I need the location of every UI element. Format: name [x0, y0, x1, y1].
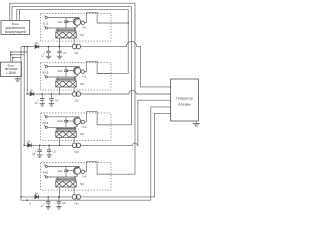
wire: control bus 3	[17, 10, 128, 74]
wire: terminal 1 rail	[48, 66, 80, 68]
control unit box	[1, 21, 30, 35]
svg-text:Cм3: Cм3	[57, 119, 63, 123]
capacitor C1	[48, 47, 50, 52]
terminal X1.2	[45, 27, 47, 29]
transformer Тр3	[56, 131, 76, 137]
diode Д2	[30, 92, 34, 96]
wire: module 4 feed loop to bus	[85, 171, 87, 173]
transistor VT3	[74, 117, 81, 124]
svg-text:Гр4: Гр4	[75, 203, 80, 206]
wire: module 3 power rail	[24, 144, 72, 146]
node: bottom bus junction	[26, 199, 28, 201]
transformer Тр1	[56, 32, 76, 38]
output jack Гн4	[81, 170, 84, 173]
terminal X1.1	[45, 16, 47, 18]
diode Д1	[35, 45, 39, 49]
wire: module 2 feed loop to bus	[85, 71, 87, 73]
power supply box	[1, 62, 22, 77]
wire: module 2 power rail	[27, 93, 72, 95]
svg-text:Х1 В: Х1 В	[42, 22, 48, 26]
svg-text:Тр2: Тр2	[80, 83, 85, 86]
module 1 dashed enclosure	[41, 14, 111, 41]
capacitor C7	[47, 197, 49, 202]
module 4 dashed enclosure	[41, 163, 111, 191]
wire: power tap to X2	[11, 54, 24, 56]
wire: secondary leads	[59, 137, 61, 145]
wire: collector to input rail	[78, 116, 80, 119]
diode Д4	[35, 195, 39, 199]
wire: control bus 1 (top outer)	[10, 3, 135, 174]
wire: collector to input rail	[78, 17, 80, 20]
node: rail junctions on module1 rail	[23, 46, 25, 48]
connector Гр1	[72, 44, 77, 49]
svg-text:Cм2: Cм2	[57, 69, 63, 73]
transistor VT4	[74, 167, 81, 174]
svg-text:Тр1: Тр1	[80, 34, 85, 37]
svg-text:Cм4: Cм4	[57, 169, 63, 173]
svg-text:коммутацией: коммутацией	[5, 30, 26, 34]
wire: secondary leads	[59, 187, 61, 197]
svg-text:Cм1: Cм1	[57, 20, 63, 24]
svg-text:Тр3: Тр3	[80, 133, 85, 136]
svg-text:плазмы: плазмы	[178, 103, 191, 107]
connector Гр2	[72, 92, 77, 97]
connector Гр4	[72, 195, 77, 200]
svg-text:Гн3: Гн3	[82, 126, 86, 129]
capacitor C4	[51, 94, 53, 99]
wire: collector to input rail	[78, 66, 80, 69]
output jack Гн3	[81, 120, 84, 123]
terminal X3.2	[45, 126, 47, 128]
svg-text:Гр1: Гр1	[75, 52, 80, 55]
wire: primary leads	[57, 177, 59, 181]
capacitor Cм4	[65, 167, 67, 171]
svg-text:Х2 В: Х2 В	[42, 71, 48, 75]
svg-text:Гр3: Гр3	[75, 151, 80, 154]
svg-text:1,5Вх8: 1,5Вх8	[6, 71, 16, 75]
wire: module 1 feed loop to bus	[85, 22, 87, 24]
svg-text:Х3 В: Х3 В	[42, 121, 48, 125]
svg-text:Тр4: Тр4	[80, 183, 85, 186]
wire: left rail X3	[26, 47, 28, 94]
wire: primary leads	[57, 28, 59, 32]
wire: secondary leads	[59, 38, 61, 47]
wire: module 4 power rail	[21, 196, 72, 198]
terminal X4.1	[45, 165, 47, 167]
connector Гр3	[72, 143, 77, 148]
wire: left rail X2	[23, 47, 25, 146]
transformer Тр2	[56, 81, 76, 87]
wire: module 1 power rail	[21, 46, 72, 48]
capacitor Cм2	[65, 67, 67, 71]
module 3 dashed enclosure	[41, 113, 111, 140]
wire: terminal 2 lead	[48, 76, 75, 78]
wire: channel 1 output with hop	[81, 41, 171, 87]
output jack Гн1	[81, 21, 84, 24]
wire: channel 2 output with hop	[81, 90, 171, 94]
capacitor C2	[59, 47, 61, 52]
transistor VT2	[74, 67, 81, 74]
wire: primary leads	[57, 127, 59, 131]
wire: left rail X1 to bottom bus and generator return	[21, 47, 171, 201]
capacitor Cм3	[65, 117, 67, 121]
wire: control bus riser 4	[18, 10, 20, 21]
capacitor Cм1	[65, 18, 67, 22]
diode Д3	[28, 143, 32, 147]
wire: terminal 1 rail	[48, 116, 80, 118]
wire: power box riser 1	[10, 52, 12, 62]
wire: power tap to X3	[11, 51, 27, 53]
wire: terminal 2 lead	[48, 176, 75, 178]
output jack Гн2	[81, 70, 84, 73]
wire: terminal 2 lead	[48, 126, 75, 128]
ground: power box	[17, 77, 19, 79]
wire: channel 4 output	[81, 113, 171, 197]
terminal X3.1	[45, 116, 47, 118]
transistor VT1	[74, 18, 81, 25]
wire: power box riser 2	[12, 58, 14, 63]
wire: terminal 1 rail	[48, 166, 80, 168]
wire: terminal 1 rail	[48, 17, 80, 19]
capacitor C6	[48, 145, 50, 150]
wire: terminal 2 lead	[48, 27, 75, 29]
transformer Тр4	[56, 181, 76, 187]
terminal X4.2	[45, 176, 47, 178]
svg-text:Гн4: Гн4	[82, 176, 86, 179]
wire: power tap to X1	[13, 57, 21, 59]
terminal X2.2	[45, 76, 47, 78]
capacitor C3	[41, 94, 43, 99]
generator box	[171, 79, 199, 121]
ground: generator box	[195, 121, 197, 124]
wire: collector to input rail	[78, 166, 80, 169]
wire: control bus 2	[12, 7, 131, 125]
module 2 dashed enclosure	[41, 63, 111, 91]
wire: secondary leads	[59, 87, 61, 94]
svg-text:Х4 В: Х4 В	[42, 171, 48, 175]
svg-text:Генератор: Генератор	[176, 96, 193, 100]
svg-text:Гн1: Гн1	[82, 27, 86, 30]
wire: channel 3 output with hop	[81, 100, 171, 145]
svg-text:Гр2: Гр2	[75, 100, 80, 103]
terminal X2.1	[45, 65, 47, 67]
capacitor C8	[58, 197, 60, 202]
wire: module 3 feed loop to bus	[85, 121, 87, 123]
capacitor C5	[39, 145, 41, 150]
wire: primary leads	[57, 77, 59, 81]
svg-text:Гн2: Гн2	[82, 76, 86, 79]
